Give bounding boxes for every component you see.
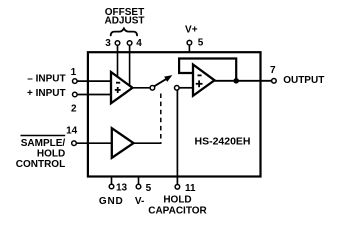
brace over offset adjust pins xyxy=(111,28,137,35)
svg-text:2: 2 xyxy=(71,103,77,114)
svg-text:4: 4 xyxy=(136,38,142,49)
wire pin 2 to A1 non-inverting input xyxy=(77,94,111,96)
wire switch throw down to pin 11 xyxy=(176,90,178,184)
svg-text:5: 5 xyxy=(146,183,152,194)
label OFFSET ADJUST xyxy=(104,7,144,27)
svg-text:GND: GND xyxy=(99,196,124,207)
wire buffer output to dashed control line xyxy=(134,142,162,144)
wire pin 5 to package top xyxy=(188,45,190,52)
pin 7 terminal xyxy=(272,79,277,84)
svg-text:SAMPLE/: SAMPLE/ xyxy=(21,138,66,149)
svg-text:CAPACITOR: CAPACITOR xyxy=(148,206,207,217)
svg-text:V-: V- xyxy=(135,196,144,207)
wire pin 5 (V-) stem xyxy=(138,176,140,184)
label SAMPLE/HOLD CONTROL xyxy=(16,138,66,170)
switch S1 arm xyxy=(154,79,166,87)
pin 3 terminal xyxy=(115,41,120,46)
svg-text:OUTPUT: OUTPUT xyxy=(283,75,324,86)
svg-text:14: 14 xyxy=(66,126,78,137)
IC package outline U1 xyxy=(88,52,261,176)
svg-text:V+: V+ xyxy=(185,25,198,36)
svg-text:CONTROL: CONTROL xyxy=(16,159,65,170)
pin 1 terminal xyxy=(73,79,78,84)
switch S1 throw contact xyxy=(175,86,180,91)
switch S1 pole contact xyxy=(150,86,155,91)
pin 13 terminal xyxy=(109,184,114,189)
wire pin 14 to control buffer input xyxy=(76,142,112,144)
pin 14 terminal xyxy=(72,141,77,146)
switch S1 arrowhead xyxy=(165,76,172,81)
pin 4 terminal xyxy=(127,41,132,46)
svg-text:13: 13 xyxy=(116,183,128,194)
svg-text:+ INPUT: + INPUT xyxy=(27,88,66,99)
junction node at A2 output xyxy=(233,78,239,84)
pin 2 terminal xyxy=(73,92,78,97)
op-amp A1 (input amplifier) xyxy=(111,72,133,103)
svg-text:HS-2420EH: HS-2420EH xyxy=(194,136,250,148)
wire switch throw to A2 non-inverting input xyxy=(179,87,193,89)
pin 5 terminal (V+) xyxy=(187,40,192,45)
wire A1 output to switch pole xyxy=(133,87,151,89)
wire pin 1 to A1 inverting input xyxy=(77,80,111,82)
wire pin 3 to A1 body xyxy=(117,45,119,77)
overline on SAMPLE xyxy=(21,135,66,137)
label HOLD CAPACITOR xyxy=(148,195,207,217)
svg-text:1: 1 xyxy=(71,67,77,78)
svg-text:11: 11 xyxy=(185,183,196,194)
wire A2 output to pin 7 xyxy=(215,80,272,82)
wire pin 4 to A1 body xyxy=(129,45,131,86)
dashed control line from buffer to switch xyxy=(160,94,162,143)
wire pin 13 stem xyxy=(111,176,113,184)
svg-text:HOLD: HOLD xyxy=(163,195,191,206)
pin 5 (V-) terminal xyxy=(136,184,141,189)
pin 11 terminal xyxy=(175,185,180,190)
control buffer A3 xyxy=(112,128,134,158)
svg-text:ADJUST: ADJUST xyxy=(104,15,144,26)
svg-text:3: 3 xyxy=(105,38,111,49)
svg-text:– INPUT: – INPUT xyxy=(27,73,65,84)
svg-text:5: 5 xyxy=(198,38,204,49)
svg-text:7: 7 xyxy=(270,65,276,76)
svg-text:HOLD: HOLD xyxy=(37,148,65,159)
feedback wire A2 output to inverting input xyxy=(179,59,236,81)
op-amp A2 (output amplifier) xyxy=(193,65,215,96)
